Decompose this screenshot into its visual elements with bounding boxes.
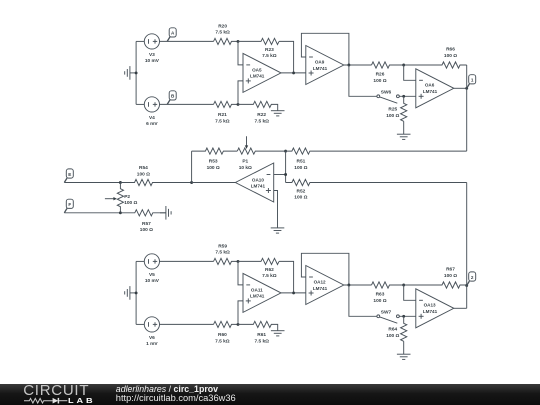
svg-text:LM741: LM741: [313, 286, 328, 291]
wire: [281, 292, 306, 294]
wire: [466, 65, 468, 88]
junction (V5/V6 common): [135, 291, 138, 294]
op-amp OA5: [243, 53, 281, 92]
ground (below OA10): [271, 227, 285, 229]
wire: [274, 191, 278, 228]
svg-text:LM741: LM741: [250, 74, 265, 79]
svg-text:P1: P1: [242, 159, 248, 165]
svg-text:OA12: OA12: [314, 279, 326, 284]
svg-text:100 Ω: 100 Ω: [294, 165, 307, 171]
resistor R23: [238, 38, 279, 44]
svg-text:R66: R66: [446, 47, 455, 53]
junction (R63/R67): [402, 284, 405, 287]
resistor R25: [401, 96, 407, 121]
junction (V3/V4 common): [135, 71, 138, 74]
svg-text:OA10: OA10: [252, 178, 264, 183]
junction (E / P2): [119, 181, 122, 184]
svg-text:7.5 kΩ: 7.5 kΩ: [215, 30, 230, 36]
wire: [160, 260, 214, 262]
svg-text:6 mV: 6 mV: [146, 121, 158, 127]
junction (R26/R66): [402, 64, 405, 67]
node flag 2: [467, 281, 470, 285]
resistor R22: [238, 101, 272, 107]
junction (SW7/R64): [402, 315, 405, 318]
svg-text:LM741: LM741: [313, 66, 328, 71]
voltage source V6: [144, 317, 159, 332]
svg-text:V5: V5: [149, 272, 155, 278]
wire: [466, 183, 468, 286]
svg-text:LM741: LM741: [423, 89, 438, 94]
ground (left of V5/V6): [130, 292, 136, 294]
svg-text:100 Ω: 100 Ω: [140, 227, 153, 233]
wire: [160, 103, 214, 105]
svg-text:R51: R51: [296, 159, 305, 165]
ground (below R64): [403, 341, 405, 354]
node flag 1: [467, 84, 470, 88]
svg-text:LM741: LM741: [251, 184, 266, 189]
svg-text:100 Ω: 100 Ω: [207, 165, 220, 171]
resistor R52: [286, 179, 467, 185]
svg-text:SW6: SW6: [381, 90, 392, 96]
resistor R67: [404, 282, 467, 288]
voltage source V5: [144, 254, 159, 269]
svg-text:R52: R52: [296, 188, 305, 194]
wire: [454, 87, 467, 89]
svg-text:LM741: LM741: [250, 294, 265, 299]
junction (node 1): [465, 87, 468, 90]
wire: [238, 301, 243, 325]
wire: [135, 41, 137, 104]
wire: [285, 151, 287, 182]
svg-text:R22: R22: [257, 112, 266, 118]
junction (OA12 output): [347, 284, 350, 287]
svg-text:OA9: OA9: [315, 59, 325, 64]
resistor R61: [238, 321, 272, 327]
wire: [136, 40, 144, 42]
junction (SW6/R25): [402, 95, 405, 98]
svg-text:R21: R21: [218, 112, 227, 118]
svg-text:10 kΩ: 10 kΩ: [239, 165, 252, 171]
resistor R20: [214, 38, 239, 44]
wire: [399, 95, 416, 97]
junction (R60/R61): [237, 323, 240, 326]
svg-text:R23: R23: [265, 47, 274, 53]
resistor R21: [214, 101, 239, 107]
svg-text:R20: R20: [218, 24, 227, 30]
svg-text:V4: V4: [149, 115, 155, 121]
wire: [466, 285, 468, 308]
op-amp OA13: [416, 289, 454, 328]
svg-text:OA11: OA11: [251, 287, 263, 292]
svg-text:P2: P2: [124, 194, 130, 200]
wire: [399, 315, 416, 317]
svg-text:R59: R59: [218, 244, 227, 250]
junction (OA9 output): [347, 64, 350, 67]
node flag A: [167, 37, 170, 41]
svg-text:1 mV: 1 mV: [146, 341, 158, 347]
svg-text:7.5 kΩ: 7.5 kΩ: [215, 118, 230, 124]
wire: [279, 41, 294, 73]
junction (F / P2): [119, 211, 122, 214]
node flag E: [64, 178, 67, 182]
op-amp OA10: [235, 163, 273, 202]
svg-text:100 Ω: 100 Ω: [386, 113, 399, 119]
wire: [136, 103, 144, 105]
ground (after R61): [272, 324, 278, 330]
junction (R54 / R53 / OA10 in): [190, 181, 193, 184]
voltage source V4: [144, 97, 159, 112]
junction (OA10 minus): [284, 173, 287, 176]
wire: [454, 307, 467, 309]
wire: [64, 212, 120, 214]
svg-text:OA5: OA5: [252, 67, 262, 72]
wire: [136, 323, 144, 325]
switch SW7: [377, 315, 380, 318]
junction (OA5 output): [292, 71, 295, 74]
svg-text:7.5 kΩ: 7.5 kΩ: [215, 338, 230, 344]
wire: [274, 174, 286, 176]
svg-text:7.5 kΩ: 7.5 kΩ: [215, 250, 230, 256]
svg-text:100 Ω: 100 Ω: [294, 195, 307, 201]
wire: [349, 65, 377, 96]
svg-text:R64: R64: [388, 327, 397, 333]
svg-text:R57: R57: [142, 221, 151, 227]
resistor R53: [192, 148, 238, 154]
svg-text:R63: R63: [376, 292, 385, 298]
svg-text:R67: R67: [446, 267, 455, 273]
wire: [238, 81, 243, 105]
ground (after R22): [272, 104, 278, 110]
svg-text:F: F: [68, 202, 71, 207]
op-amp OA9: [306, 46, 344, 85]
potentiometer P2: [117, 183, 123, 213]
svg-text:7.5 kΩ: 7.5 kΩ: [254, 118, 269, 124]
ground (after R57): [160, 212, 166, 214]
svg-text:LM741: LM741: [423, 309, 438, 314]
wire: [404, 65, 416, 80]
op-amp OA12: [306, 266, 344, 305]
svg-text:100 Ω: 100 Ω: [137, 171, 150, 177]
wire: [136, 260, 144, 262]
node flag B: [167, 100, 170, 104]
switch SW6: [377, 95, 380, 98]
resistor R62: [238, 258, 279, 264]
junction (node 2): [465, 284, 468, 287]
svg-text:R61: R61: [257, 332, 266, 338]
wire: [349, 285, 377, 316]
svg-text:OA13: OA13: [424, 303, 436, 308]
op-amp OA11: [243, 273, 281, 312]
wire: [301, 33, 349, 65]
junction (R59/R62): [237, 260, 240, 263]
wire: [279, 261, 294, 293]
junction (OA11 output): [292, 291, 295, 294]
svg-text:10 mV: 10 mV: [145, 58, 160, 64]
svg-text:SW7: SW7: [381, 310, 392, 316]
wire: [238, 41, 243, 65]
svg-text:100 Ω: 100 Ω: [124, 200, 137, 206]
svg-text:7.5 kΩ: 7.5 kΩ: [262, 53, 277, 59]
ground (left of V3/V4): [130, 72, 136, 74]
resistor R63: [372, 282, 404, 288]
node flag F: [64, 208, 67, 212]
svg-text:100 Ω: 100 Ω: [444, 273, 457, 279]
svg-text:R26: R26: [376, 72, 385, 78]
svg-text:7.5 kΩ: 7.5 kΩ: [254, 338, 269, 344]
svg-text:R53: R53: [209, 159, 218, 165]
svg-text:V6: V6: [149, 335, 155, 341]
wire: [281, 72, 306, 74]
svg-text:100 Ω: 100 Ω: [373, 78, 386, 84]
wire: [301, 253, 349, 285]
resistor R66: [404, 62, 467, 68]
voltage source V3: [144, 34, 159, 49]
wire: [238, 261, 243, 285]
op-amp OA6: [416, 69, 454, 108]
svg-text:V3: V3: [149, 52, 155, 58]
wire: [191, 151, 193, 182]
logo resistor+diode glyph: [24, 397, 69, 405]
svg-text:R62: R62: [265, 267, 274, 273]
wire: [64, 182, 120, 184]
svg-text:R54: R54: [139, 165, 148, 171]
svg-text:OA6: OA6: [425, 83, 435, 88]
wire: [466, 88, 468, 151]
svg-text:R60: R60: [218, 332, 227, 338]
ground (below R25): [403, 121, 405, 134]
junction (R20/R23): [237, 40, 240, 43]
wire: [344, 64, 372, 66]
svg-text:100 Ω: 100 Ω: [444, 53, 457, 59]
wire: [160, 323, 214, 325]
wire: [160, 40, 214, 42]
potentiometer P1: [237, 148, 285, 154]
svg-text:100 Ω: 100 Ω: [386, 333, 399, 339]
junction (R21/R22): [237, 103, 240, 106]
svg-text:7.5 kΩ: 7.5 kΩ: [262, 273, 277, 279]
wire: [135, 261, 137, 324]
resistor R57: [120, 210, 165, 216]
svg-text:2: 2: [471, 275, 474, 280]
resistor R26: [372, 62, 404, 68]
svg-text:E: E: [68, 172, 71, 177]
resistor R60: [214, 321, 239, 327]
resistor R51: [286, 148, 467, 154]
resistor R54: [120, 179, 191, 185]
resistor R64: [401, 316, 407, 341]
svg-text:1: 1: [471, 78, 474, 83]
wire: [404, 285, 416, 300]
svg-text:10 mV: 10 mV: [145, 278, 160, 284]
svg-text:100 Ω: 100 Ω: [373, 298, 386, 304]
wire: [192, 182, 236, 184]
junction (P1 / R51): [284, 150, 287, 153]
wire: [344, 284, 372, 286]
svg-text:R25: R25: [388, 107, 397, 113]
resistor R59: [214, 258, 239, 264]
